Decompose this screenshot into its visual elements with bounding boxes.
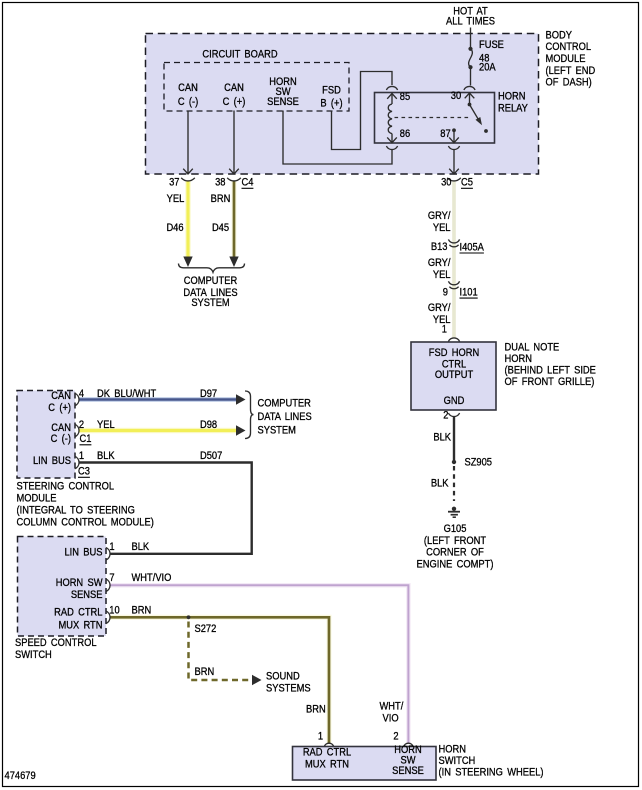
svg-text:HORN: HORN (439, 744, 466, 756)
wire WHT/VIO to horn switch (110, 585, 408, 743)
svg-text:OF FRONT GRILLE): OF FRONT GRILLE) (505, 377, 595, 389)
svg-text:WHT/: WHT/ (380, 701, 404, 713)
svg-text:(BEHIND LEFT SIDE: (BEHIND LEFT SIDE (505, 365, 597, 377)
svg-text:BRN: BRN (306, 704, 326, 716)
brace computer data lines (179, 264, 245, 273)
svg-text:D507: D507 (200, 451, 223, 463)
wire BRN to horn switch (110, 617, 329, 743)
label FUSE 48 20A (479, 40, 504, 74)
connector I101 arcs (448, 281, 459, 288)
label COMPUTER DATA LINES SYSTEM (183, 276, 237, 310)
svg-text:BLK: BLK (433, 432, 451, 444)
svg-text:HORN: HORN (505, 353, 532, 365)
label SOUND SYSTEMS (266, 671, 311, 695)
horn switch boundary arc pin 1 (324, 743, 334, 747)
pin 10 arc (106, 611, 110, 624)
pin 37 arrow at BCM boundary (183, 169, 193, 174)
label WHT/VIO (at horn switch) (380, 701, 404, 725)
ground G105 (448, 507, 460, 518)
svg-text:MUX RTN: MUX RTN (58, 620, 102, 632)
svg-text:GRY/: GRY/ (428, 210, 451, 222)
relay coil between pins 85 and 86 (388, 94, 392, 143)
relay switch pivot node pin 30 (468, 103, 472, 107)
relay switch arm (470, 105, 479, 119)
relay K1 HORN RELAY box (375, 93, 495, 144)
pin 2 arc (75, 424, 79, 437)
connector I405A arcs (448, 239, 459, 246)
svg-text:BLK: BLK (132, 542, 150, 554)
svg-text:D97: D97 (200, 389, 217, 401)
svg-text:BLK: BLK (431, 478, 449, 490)
relay pin 30 boundary arc (464, 86, 475, 90)
relay internal dashed link (395, 117, 470, 119)
relay pin 86 boundary arc (386, 146, 397, 150)
svg-text:SWITCH: SWITCH (439, 755, 476, 767)
svg-text:GND: GND (444, 395, 465, 407)
svg-text:C (+): C (+) (223, 97, 246, 109)
pin label CAN C (+) (48, 391, 71, 415)
svg-text:C5: C5 (461, 177, 473, 189)
relay pin 87 boundary arc (448, 146, 459, 150)
label COMPUTER DATA LINES SYSTEM (right) (258, 398, 312, 436)
svg-text:C3: C3 (78, 466, 90, 478)
pin 7 arc (106, 579, 110, 592)
svg-text:OUTPUT: OUTPUT (435, 369, 473, 381)
pin label RAD CTRL MUX RTN (54, 607, 103, 632)
svg-text:SYSTEM: SYSTEM (191, 298, 229, 310)
relay pin 87 contact node (452, 128, 456, 132)
circuit board sub-module box (164, 63, 349, 112)
wire FSD B(+) to relay pin 85 (332, 72, 393, 150)
svg-text:VIO: VIO (383, 713, 399, 725)
svg-text:MODULE: MODULE (546, 53, 586, 65)
module U3 SPEED CONTROL SWITCH box (18, 537, 107, 637)
pin 30 arrow at BCM boundary (449, 169, 459, 174)
wire CAN C(-) to pin 37 (187, 111, 189, 174)
svg-text:FSD: FSD (322, 85, 341, 97)
label SPEED CONTROL SWITCH (15, 637, 97, 661)
arrow D97 to computer data lines (236, 394, 246, 404)
pin 38 connector arc C4 (227, 178, 241, 181)
module U2 STEERING CONTROL MODULE box (17, 391, 75, 479)
svg-text:1: 1 (109, 542, 114, 554)
relay pin 85 boundary arc (386, 86, 397, 90)
svg-text:COMPUTER: COMPUTER (258, 398, 311, 410)
svg-text:DATA LINES: DATA LINES (258, 411, 312, 423)
svg-text:WHT/VIO: WHT/VIO (132, 573, 172, 585)
svg-text:LIN BUS: LIN BUS (64, 547, 102, 559)
pin 1 arc (SCS) (106, 548, 110, 561)
svg-text:30: 30 (451, 90, 462, 102)
svg-text:DK BLU/WHT: DK BLU/WHT (97, 389, 156, 401)
pin label CAN C (-) (51, 423, 71, 446)
wire YEL from pin 37 (185, 181, 191, 258)
arrow to computer data lines (BRN) (229, 257, 238, 268)
svg-text:87: 87 (440, 128, 451, 140)
label HOT AT ALL TIMES (446, 6, 495, 28)
svg-text:CAN: CAN (178, 83, 198, 95)
wire fuse to relay pin 30 (470, 67, 472, 85)
FSD horn boundary arc pin 2 (448, 413, 459, 417)
wire relay 87 to BCM boundary (453, 149, 455, 174)
component S1 HORN SWITCH box (293, 747, 437, 781)
arrow to sound systems (252, 675, 262, 685)
svg-text:SOUND: SOUND (266, 671, 300, 683)
svg-text:ENGINE COMPT): ENGINE COMPT) (417, 559, 494, 571)
wire BRN from pin 38 (232, 181, 237, 258)
wire BLK to splice SZ905 (453, 417, 455, 463)
label GRY/YEL (2) (428, 257, 451, 281)
svg-text:COLUMN CONTROL MODULE): COLUMN CONTROL MODULE) (17, 517, 154, 529)
svg-text:BLK: BLK (97, 451, 115, 463)
svg-text:7: 7 (109, 573, 114, 585)
splice node SZ905 (452, 460, 456, 464)
relay pin 87 wire (453, 130, 455, 142)
svg-text:BRN: BRN (211, 194, 231, 206)
svg-text:4: 4 (79, 389, 84, 401)
wire CAN C(+) to pin 38 (233, 111, 235, 174)
svg-text:SZ905: SZ905 (465, 457, 493, 469)
svg-text:37: 37 (169, 177, 180, 189)
svg-text:474679: 474679 (5, 771, 36, 783)
svg-text:I101: I101 (460, 287, 478, 299)
svg-text:BRN: BRN (195, 667, 215, 679)
svg-text:MODULE: MODULE (17, 493, 57, 505)
svg-text:D98: D98 (200, 420, 217, 432)
wire GRY/YEL C5 to FSD horn (452, 181, 456, 338)
arrow D98 to computer data lines (236, 425, 246, 435)
label GRY/YEL (3) (428, 302, 451, 326)
pin 1 arc (75, 456, 79, 469)
wire YEL D98 (80, 428, 238, 434)
splice node S272 (187, 615, 191, 619)
svg-text:C1: C1 (80, 434, 92, 446)
pin label FSD B (+) (320, 85, 342, 110)
svg-text:LIN BUS: LIN BUS (33, 455, 71, 467)
label G105 (LEFT FRONT CORNER OF ENGINE COMPT) (417, 524, 494, 571)
svg-text:ALL TIMES: ALL TIMES (446, 16, 495, 28)
svg-text:SPEED CONTROL: SPEED CONTROL (15, 637, 97, 649)
svg-text:10: 10 (109, 605, 120, 617)
svg-text:RAD CTRL: RAD CTRL (303, 747, 352, 759)
svg-text:2: 2 (443, 410, 448, 422)
relay pin 87 arrow (449, 137, 459, 142)
svg-text:YEL: YEL (433, 269, 451, 281)
svg-text:COMPUTER: COMPUTER (184, 276, 237, 288)
label HORN RELAY (498, 91, 528, 115)
svg-text:RAD CTRL: RAD CTRL (54, 607, 103, 619)
svg-text:C (-): C (-) (51, 434, 71, 446)
wire battery feed to fuse (470, 28, 472, 49)
wire BRN dashed to sound systems (189, 622, 251, 681)
svg-text:S272: S272 (195, 624, 217, 636)
svg-text:DUAL NOTE: DUAL NOTE (505, 342, 560, 354)
svg-text:G105: G105 (444, 524, 467, 536)
svg-text:85: 85 (400, 92, 411, 104)
svg-text:CIRCUIT BOARD: CIRCUIT BOARD (202, 49, 277, 61)
svg-text:YEL: YEL (167, 194, 185, 206)
relay stationary contact node (484, 129, 488, 133)
label HORN SWITCH (IN STEERING WHEEL) (439, 744, 544, 778)
svg-text:I405A: I405A (460, 242, 485, 254)
svg-text:HORN: HORN (498, 91, 525, 103)
wire BLK dashed to ground (453, 466, 455, 501)
pin label HORN SW SENSE (56, 578, 103, 602)
label RAD CTRL MUX RTN (box) (303, 747, 352, 771)
svg-text:D45: D45 (212, 223, 229, 235)
relay pin 30 arrow (465, 93, 475, 98)
svg-text:SYSTEM: SYSTEM (258, 425, 296, 437)
svg-text:D46: D46 (166, 223, 183, 235)
svg-text:BODY: BODY (546, 30, 573, 42)
module U1 BODY CONTROL MODULE box (146, 34, 539, 175)
svg-text:9: 9 (443, 287, 448, 299)
svg-text:BRN: BRN (132, 605, 152, 617)
svg-text:RELAY: RELAY (498, 103, 528, 115)
svg-text:(LEFT END: (LEFT END (546, 65, 596, 77)
svg-text:30: 30 (441, 177, 452, 189)
svg-text:GRY/: GRY/ (428, 302, 451, 314)
svg-text:20A: 20A (479, 62, 496, 74)
wire BLK D507 LIN BUS (80, 463, 252, 554)
svg-text:SENSE: SENSE (71, 590, 103, 602)
label DUAL NOTE HORN (BEHIND LEFT SIDE OF FRONT GRILLE) (505, 342, 597, 389)
pin label CAN C (+) (223, 83, 246, 109)
arrow to computer data lines (YEL) (183, 257, 192, 268)
svg-text:SYSTEMS: SYSTEMS (266, 683, 311, 695)
svg-text:SWITCH: SWITCH (15, 649, 52, 661)
svg-text:HORN SW: HORN SW (56, 578, 103, 590)
label HORN SW SENSE (box) (392, 745, 424, 778)
relay pin 30 wire (469, 93, 471, 105)
svg-text:1: 1 (442, 324, 447, 336)
brace right computer data lines (245, 391, 254, 439)
svg-text:86: 86 (400, 128, 411, 140)
label GRY/YEL (1) (428, 210, 451, 234)
svg-text:C (+): C (+) (48, 402, 71, 414)
label STEERING CONTROL MODULE (INTEGRAL TO STEERING COLUMN CONTROL MODULE) (17, 481, 154, 529)
svg-text:MUX RTN: MUX RTN (305, 759, 349, 771)
svg-text:(LEFT FRONT: (LEFT FRONT (424, 535, 486, 547)
svg-text:FUSE: FUSE (479, 40, 504, 52)
svg-text:CAN: CAN (224, 83, 244, 95)
label BODY CONTROL MODULE (LEFT END OF DASH) (546, 30, 596, 89)
svg-text:(IN STEERING WHEEL): (IN STEERING WHEEL) (439, 767, 544, 779)
svg-text:1: 1 (79, 451, 84, 463)
fuse 48 20A (468, 47, 472, 70)
relay pin 86 arrow (387, 137, 397, 142)
pin label HORN SW SENSE (267, 77, 299, 109)
svg-text:YEL: YEL (433, 222, 451, 234)
svg-text:OF DASH): OF DASH) (546, 77, 592, 89)
svg-text:GRY/: GRY/ (428, 257, 451, 269)
svg-text:1: 1 (318, 731, 323, 743)
svg-text:YEL: YEL (97, 420, 115, 432)
svg-text:CORNER OF: CORNER OF (426, 547, 484, 559)
pin 4 arc (75, 393, 79, 406)
svg-text:SENSE: SENSE (267, 97, 299, 109)
svg-text:FSD HORN: FSD HORN (429, 348, 479, 360)
wire HORN SW SENSE to relay pin 86 (283, 111, 392, 165)
svg-text:C4: C4 (242, 177, 254, 189)
svg-text:B (+): B (+) (320, 98, 342, 110)
svg-text:C (-): C (-) (178, 97, 198, 109)
pin 38 arrow at BCM boundary (229, 169, 239, 174)
svg-text:(INTEGRAL TO STEERING: (INTEGRAL TO STEERING (17, 505, 135, 517)
svg-text:38: 38 (215, 177, 226, 189)
svg-text:STEERING CONTROL: STEERING CONTROL (17, 481, 115, 493)
wire DK BLU/WHT D97 (80, 397, 238, 402)
svg-text:2: 2 (79, 420, 84, 432)
FSD horn boundary arc pin 1 (448, 338, 459, 342)
relay pin 85 arrow (387, 94, 397, 99)
label FSD HORN CTRL OUTPUT GND (429, 348, 479, 408)
svg-text:B13: B13 (431, 242, 448, 254)
pin label CAN C (-) (178, 83, 198, 109)
svg-text:SENSE: SENSE (392, 766, 424, 778)
svg-text:2: 2 (393, 731, 398, 743)
horn switch boundary arc pin 2 (404, 743, 414, 747)
svg-text:CONTROL: CONTROL (546, 42, 592, 54)
svg-text:CAN: CAN (51, 391, 71, 403)
component FSD HORN box (411, 342, 496, 410)
connector arc C5 (447, 178, 461, 181)
pin 37 connector arc (181, 178, 195, 181)
